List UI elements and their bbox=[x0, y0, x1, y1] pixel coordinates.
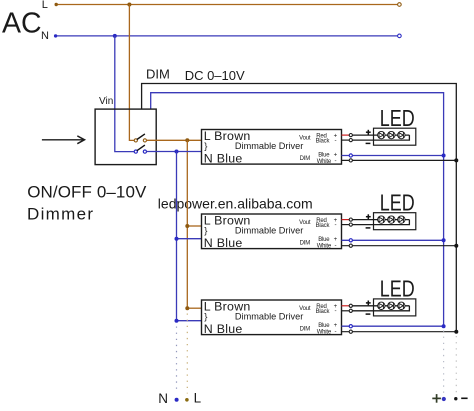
svg-text:-: - bbox=[335, 242, 337, 249]
LED D13 bbox=[398, 131, 405, 138]
wire U2 DIM white - bbox=[342, 245, 457, 247]
junction N bus at U1 bbox=[175, 150, 179, 154]
LED module 1 box bbox=[374, 128, 416, 145]
svg-text:Black: Black bbox=[316, 223, 331, 229]
wire U2 Vout red bbox=[342, 219, 351, 221]
svg-text:ON/OFF 0–10V: ON/OFF 0–10V bbox=[27, 182, 147, 201]
junction DC bus at U1 bbox=[442, 154, 446, 158]
svg-text:N: N bbox=[158, 391, 168, 406]
svg-text:}: } bbox=[204, 312, 207, 323]
svg-text:Black: Black bbox=[316, 309, 331, 315]
svg-text:L: L bbox=[42, 0, 48, 11]
wire U1 LED + lead bbox=[351, 134, 410, 136]
wire L rail (brown) bbox=[56, 4, 399, 6]
wire L drop to dimmer switch bbox=[129, 5, 134, 141]
terminal U1 black bbox=[349, 139, 352, 142]
svg-text:Vin: Vin bbox=[99, 96, 113, 107]
corner DC bus at U3 bbox=[442, 324, 446, 328]
svg-text:LED: LED bbox=[380, 190, 415, 216]
svg-text:Dimmable Driver: Dimmable Driver bbox=[235, 141, 303, 151]
wire U2 LED return bbox=[351, 220, 410, 225]
svg-text:Vout: Vout bbox=[299, 220, 311, 226]
dotted DIM+ extension bbox=[443, 331, 445, 394]
driver U3 box bbox=[202, 300, 342, 335]
LED D32 bbox=[388, 302, 395, 309]
svg-text:Vout: Vout bbox=[299, 136, 311, 142]
svg-text:Black: Black bbox=[316, 138, 331, 144]
svg-text:LED: LED bbox=[380, 106, 415, 132]
wire U3 LED + lead bbox=[351, 305, 410, 307]
wire U3 Vout red bbox=[342, 305, 351, 307]
terminal U3 white bbox=[349, 330, 352, 333]
svg-text:Vout: Vout bbox=[299, 306, 311, 312]
label U2 polarity + bbox=[366, 216, 371, 218]
wire N rail (blue) bbox=[55, 35, 399, 37]
junction DIM bus at U2 bbox=[454, 244, 458, 248]
LED D23 bbox=[398, 216, 405, 223]
terminal DIM+ bottom bbox=[442, 397, 446, 401]
svg-text:N Blue: N Blue bbox=[204, 152, 243, 166]
dotted N extension bbox=[176, 327, 178, 394]
terminal ring N end bbox=[398, 34, 402, 38]
driver U2 box bbox=[202, 214, 342, 249]
svg-text:DIM: DIM bbox=[300, 156, 311, 162]
svg-text:Blue: Blue bbox=[318, 323, 330, 329]
wire U2 DIM blue + bbox=[342, 239, 444, 241]
svg-text:-: - bbox=[335, 221, 337, 228]
terminal U3 red bbox=[349, 304, 352, 307]
switch S1 upper right contact bbox=[143, 139, 146, 142]
svg-text:}: } bbox=[204, 226, 207, 237]
svg-text:Dimmable Driver: Dimmable Driver bbox=[235, 312, 303, 322]
terminal L bottom bbox=[185, 398, 189, 402]
label U3 polarity + bbox=[366, 302, 371, 304]
switch S1 lower blade bbox=[137, 145, 145, 151]
wire N output of dimmer to driver U1 bbox=[146, 151, 201, 153]
wire L feed to driver U2 bbox=[187, 225, 201, 227]
label - bottom bbox=[461, 397, 467, 399]
LED D31 bbox=[378, 302, 385, 309]
junction N bus at U2 bbox=[175, 237, 179, 241]
svg-text:DIM: DIM bbox=[300, 327, 311, 333]
svg-text:-: - bbox=[335, 158, 337, 165]
svg-text:N Blue: N Blue bbox=[204, 236, 243, 250]
svg-text:-: - bbox=[335, 137, 337, 144]
switch S1 upper blade bbox=[137, 134, 145, 140]
svg-text:}: } bbox=[204, 141, 207, 152]
terminal U2 blue bbox=[349, 239, 352, 242]
LED module 2 box bbox=[374, 213, 416, 230]
wire U1 DIM white - bbox=[342, 159, 457, 161]
arrow into dimmer bbox=[42, 139, 84, 141]
svg-text:-: - bbox=[335, 328, 337, 335]
wire U3 DIM white - bbox=[342, 331, 457, 333]
driver U1 box bbox=[202, 130, 342, 165]
dotted DIM- extension bbox=[455, 336, 457, 393]
wire U3 LED return bbox=[351, 306, 410, 311]
wire U2 LED + lead bbox=[351, 219, 410, 221]
wire L feed to driver U3 bbox=[187, 307, 201, 309]
wire DIM bus (black): dimmer top, across, down right side bbox=[142, 84, 457, 332]
wire U3 DIM blue + bbox=[342, 325, 444, 327]
switch S1 lower (N) left contact bbox=[134, 150, 137, 153]
wire N feed to driver U3 bbox=[177, 320, 202, 322]
wire L vertical bus bbox=[186, 140, 188, 308]
svg-text:White: White bbox=[317, 330, 332, 336]
terminal N bottom bbox=[175, 398, 179, 402]
dotted L extension bbox=[186, 314, 188, 394]
svg-text:N: N bbox=[41, 30, 49, 42]
LED module 3 box bbox=[374, 299, 416, 316]
terminal U2 black bbox=[349, 223, 352, 226]
wire U3 Vout black bbox=[342, 310, 351, 312]
LED D21 bbox=[378, 216, 385, 223]
label U3 polarity - bbox=[366, 313, 371, 315]
svg-text:ledpower.en.alibaba.com: ledpower.en.alibaba.com bbox=[158, 196, 313, 212]
svg-text:DIM: DIM bbox=[300, 241, 311, 247]
svg-text:White: White bbox=[317, 159, 332, 165]
wire U1 LED return bbox=[351, 135, 410, 140]
junction DC bus at U2 bbox=[442, 238, 446, 242]
terminal dot N start bbox=[54, 34, 57, 37]
wire L output of dimmer to driver U1 bbox=[146, 139, 201, 141]
label U2 polarity - bbox=[366, 227, 371, 229]
terminal ring L end bbox=[398, 3, 402, 7]
wire U2 Vout black bbox=[342, 224, 351, 226]
svg-text:Dimmable Driver: Dimmable Driver bbox=[235, 226, 303, 236]
wire N vertical bus bbox=[176, 152, 178, 321]
corner N bus at U3 bbox=[175, 319, 179, 323]
terminal U1 blue bbox=[349, 154, 352, 157]
terminal U3 blue bbox=[349, 325, 352, 328]
label U1 polarity + bbox=[366, 131, 371, 133]
corner DIM bus at U3 bbox=[454, 330, 458, 334]
dimmer box bbox=[95, 109, 156, 165]
terminal U1 white bbox=[349, 159, 352, 162]
junction L bus at U1 bbox=[185, 138, 189, 142]
label + bottom bbox=[432, 397, 441, 399]
junction L bus at U2 bbox=[185, 224, 189, 228]
switch S1 lower right contact bbox=[143, 150, 146, 153]
svg-text:L: L bbox=[194, 391, 202, 406]
wire U1 DIM blue + bbox=[342, 155, 444, 157]
terminal U1 red bbox=[349, 134, 352, 137]
svg-text:Blue: Blue bbox=[318, 152, 330, 158]
terminal U3 black bbox=[349, 309, 352, 312]
svg-text:-: - bbox=[335, 307, 337, 314]
svg-text:LED: LED bbox=[380, 276, 415, 302]
wire U1 Vout red bbox=[342, 134, 351, 136]
label U1 polarity - bbox=[366, 142, 371, 144]
LED D11 bbox=[378, 131, 385, 138]
LED D22 bbox=[388, 216, 395, 223]
corner L bus at U3 bbox=[185, 306, 189, 310]
terminal U2 white bbox=[349, 244, 352, 247]
svg-text:Blue: Blue bbox=[318, 237, 330, 243]
wire DC 0-10V bus (blue): dimmer top, across, down right side bbox=[151, 93, 444, 327]
terminal DIM- bottom bbox=[454, 397, 457, 400]
terminal dot L start bbox=[55, 3, 58, 6]
terminal U2 red bbox=[349, 218, 352, 221]
svg-text:AC: AC bbox=[2, 8, 42, 40]
svg-text:DC 0–10V: DC 0–10V bbox=[185, 68, 245, 83]
junction N rail / dimmer drop bbox=[113, 34, 117, 38]
junction DIM bus at U1 bbox=[454, 158, 458, 162]
LED D33 bbox=[398, 302, 405, 309]
svg-text:Dimmer: Dimmer bbox=[27, 205, 94, 224]
wire N feed to driver U2 bbox=[177, 238, 202, 240]
svg-text:DIM: DIM bbox=[146, 66, 170, 81]
svg-text:N Blue: N Blue bbox=[204, 322, 243, 336]
switch S1 upper (L) left contact bbox=[134, 139, 137, 142]
wire N drop to dimmer switch bbox=[115, 36, 134, 152]
LED D12 bbox=[388, 131, 395, 138]
junction L rail / dimmer drop bbox=[127, 3, 131, 7]
svg-text:White: White bbox=[317, 244, 332, 250]
wire U1 Vout black bbox=[342, 139, 351, 141]
